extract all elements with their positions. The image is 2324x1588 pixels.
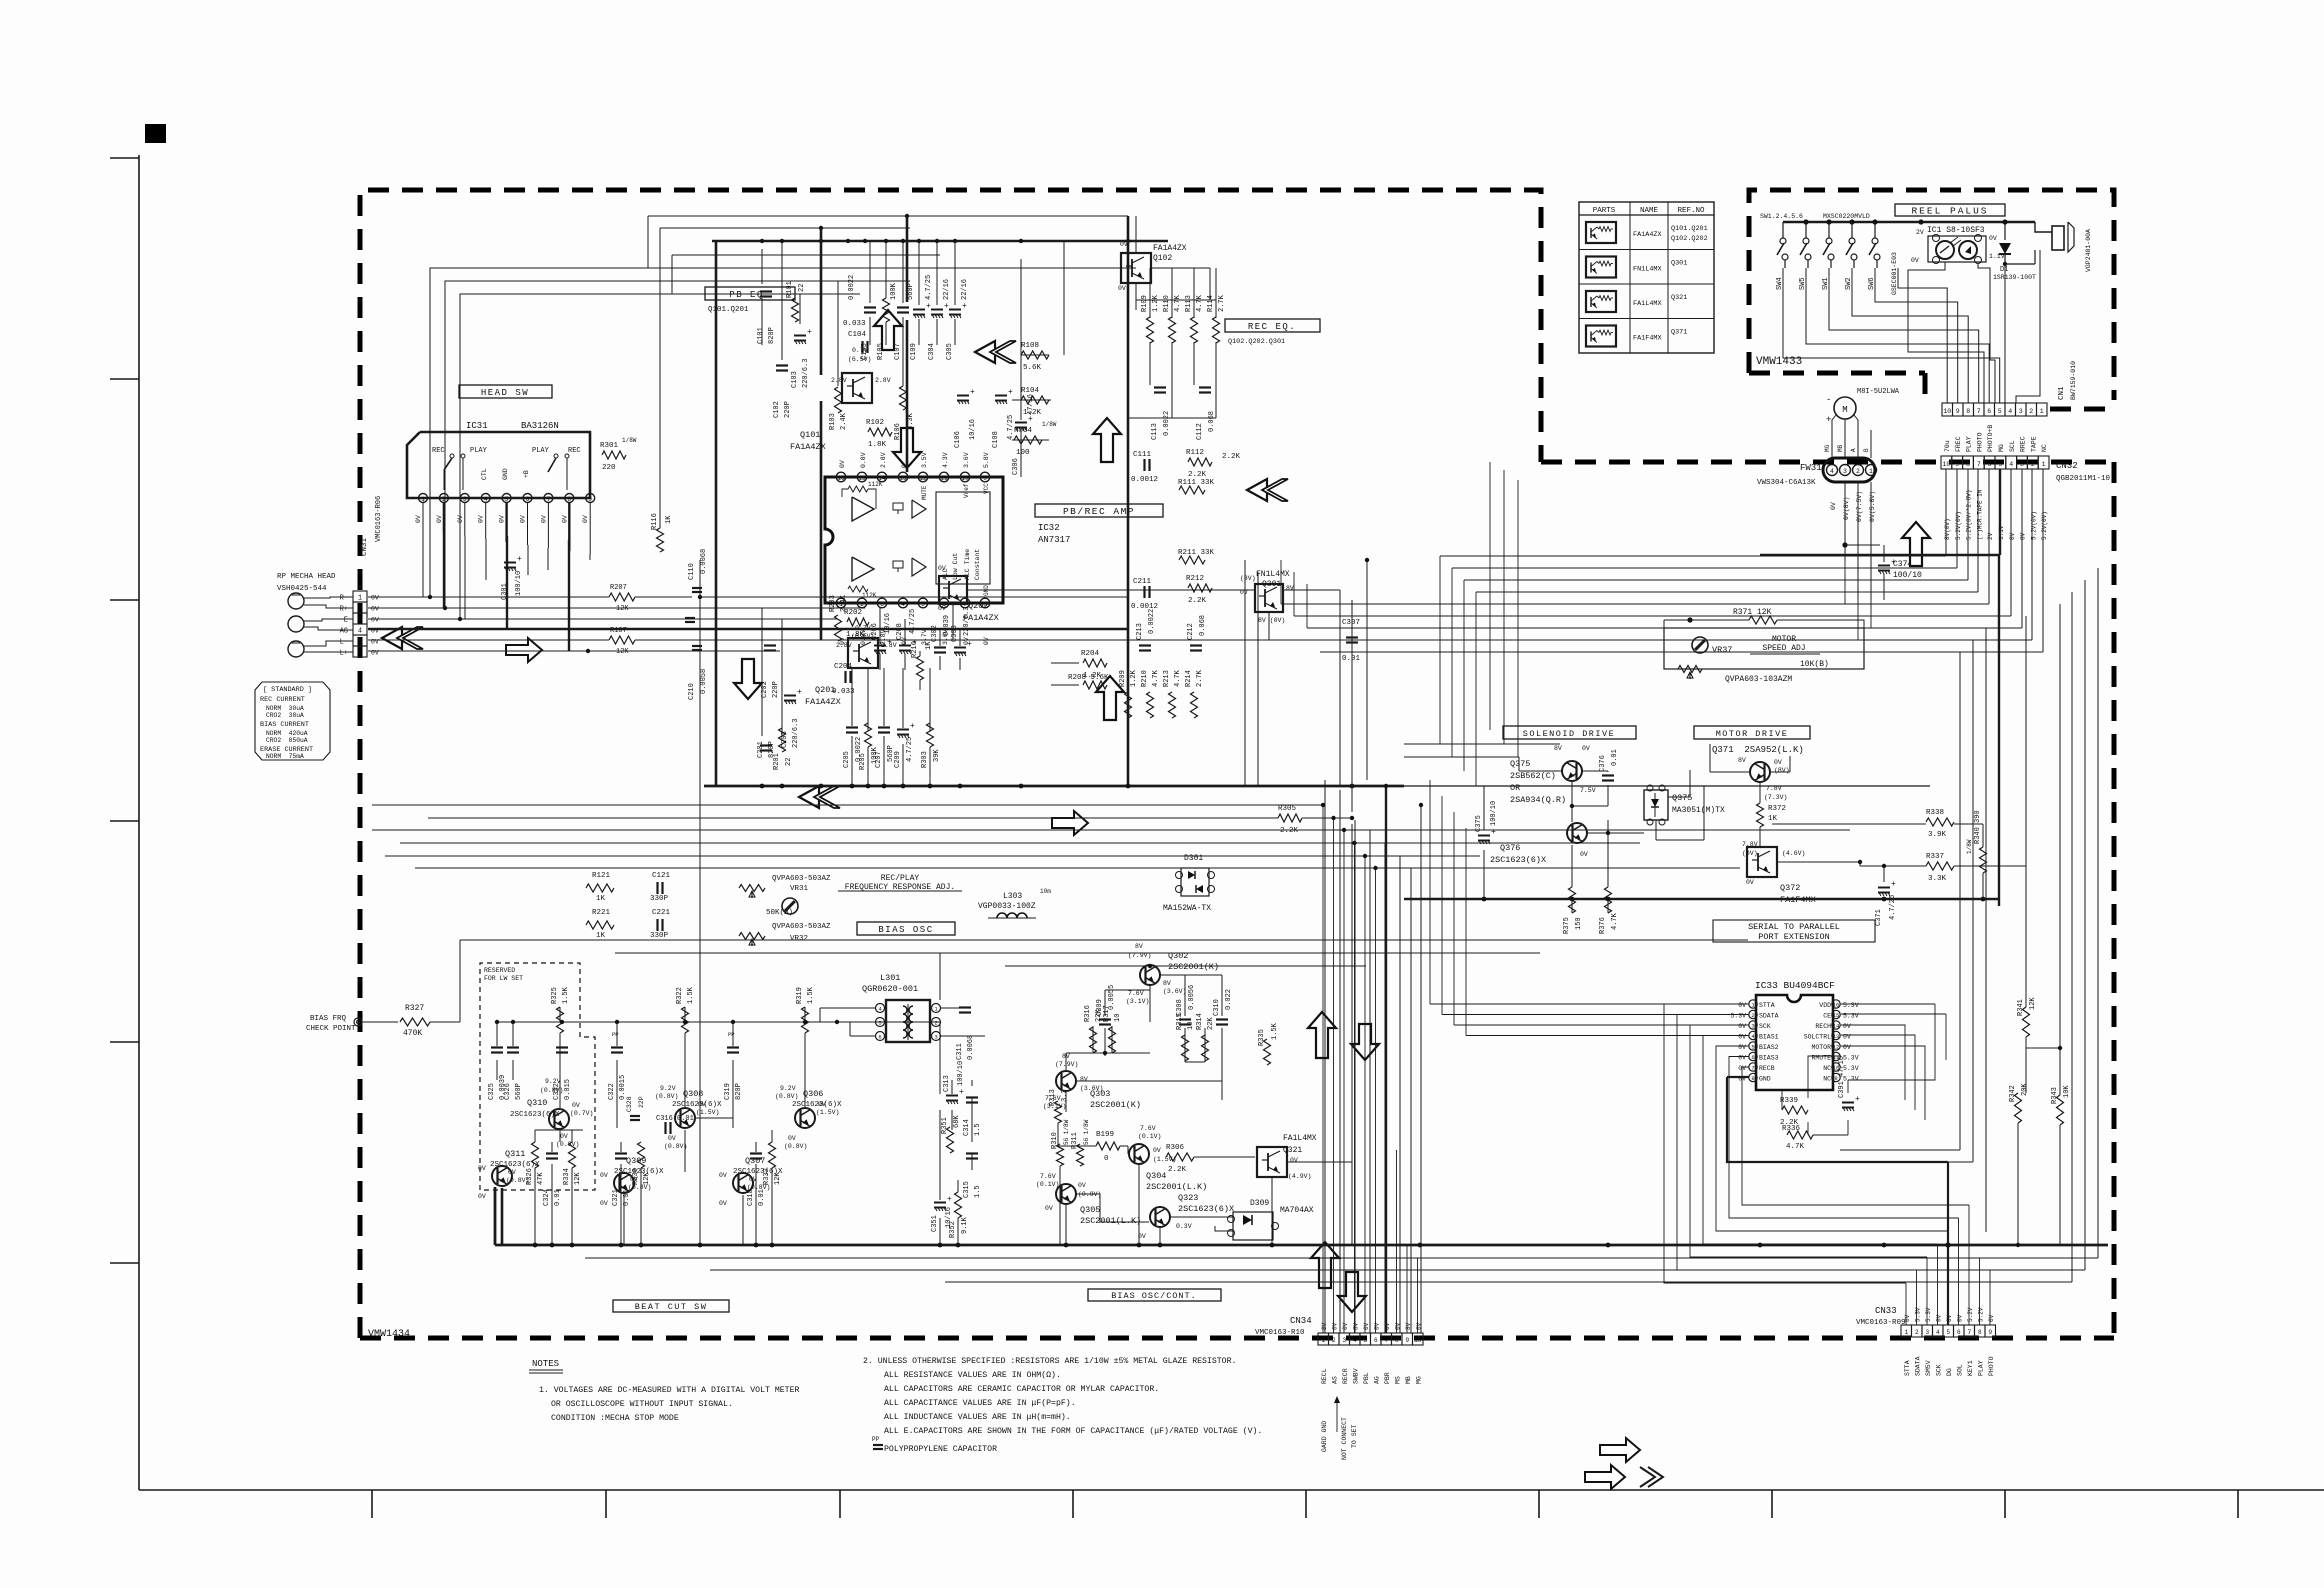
transistor Q371 2SA952(L.K) (1750, 762, 1770, 782)
transistor Q303 2SC2001(K) (1056, 1071, 1076, 1091)
svg-text:0V: 0V (1936, 1314, 1943, 1322)
svg-text:2: 2 (1332, 1337, 1336, 1344)
svg-text:R351: R351 (941, 1117, 949, 1134)
svg-text:0V: 0V (938, 605, 946, 612)
svg-text:A: A (1850, 448, 1857, 452)
svg-text:0V: 0V (839, 460, 846, 468)
svg-text:Q102.Q202: Q102.Q202 (1671, 235, 1708, 243)
svg-text:C324: C324 (543, 1189, 551, 1206)
capacitor C212 (1190, 644, 1202, 646)
svg-text:VR37: VR37 (1712, 645, 1732, 655)
svg-text:0V: 0V (1904, 1314, 1911, 1322)
svg-text:1: 1 (2040, 408, 2044, 415)
svg-text:6: 6 (1988, 461, 1992, 468)
svg-text:+: + (1855, 1095, 1860, 1104)
svg-text:R214: R214 (1185, 670, 1193, 687)
svg-text:BIAS FRQ: BIAS FRQ (310, 1015, 347, 1023)
resistor R301 (602, 451, 626, 459)
svg-text:RP MECHA HEAD: RP MECHA HEAD (277, 573, 336, 581)
resistor R205 (865, 723, 872, 747)
svg-text:R335: R335 (1258, 1029, 1266, 1046)
signal arrow down (ic32) (893, 428, 921, 468)
svg-text:Q305: Q305 (1080, 1205, 1100, 1215)
resistor R208 (1083, 681, 1107, 689)
svg-text:2SC2001(L.K): 2SC2001(L.K) (1146, 1182, 1207, 1192)
wire bus head lines (368, 596, 609, 598)
svg-text:5.3V: 5.3V (1915, 1307, 1922, 1322)
svg-text:0V: 0V (1843, 1023, 1851, 1030)
svg-text:3.5V: 3.5V (921, 452, 928, 468)
svg-text:AG: AG (340, 628, 348, 636)
resistor R216 (917, 656, 924, 680)
svg-text:VGP0033-100Z: VGP0033-100Z (978, 902, 1036, 911)
resistor R332 (769, 1142, 776, 1168)
head L (288, 641, 304, 657)
svg-text:BIAS2: BIAS2 (1759, 1044, 1779, 1051)
signal arrow double-left (rec eq) (975, 341, 995, 363)
svg-text:QGB2011M1-10: QGB2011M1-10 (2056, 475, 2111, 483)
svg-text:MA3051(M)TX: MA3051(M)TX (1672, 806, 1725, 815)
IC32 pin 14 (877, 472, 887, 482)
svg-text:5: 5 (1751, 1044, 1754, 1051)
svg-text:PORT EXTENSION: PORT EXTENSION (1758, 932, 1829, 942)
svg-text:6: 6 (878, 1034, 881, 1041)
svg-text:R334: R334 (563, 1168, 571, 1185)
IC33 pin 12 MOTOR (1832, 1042, 1840, 1050)
svg-text:R330: R330 (632, 1168, 640, 1185)
svg-text:R303: R303 (921, 751, 929, 768)
svg-text:(0.8V): (0.8V) (784, 1143, 807, 1150)
signal arrow up (bias1) (1308, 1012, 1336, 1058)
capacitor C208 (899, 645, 911, 647)
svg-text:Q301: Q301 (1671, 260, 1687, 268)
resistor R325 (557, 1007, 564, 1033)
svg-text:100K: 100K (890, 282, 898, 300)
svg-text:C102: C102 (773, 401, 781, 418)
resistor R107 (609, 636, 635, 644)
svg-text:R205: R205 (859, 753, 867, 770)
IC33 pin 10 NC (1832, 1063, 1840, 1071)
svg-text:0V: 0V (698, 1101, 706, 1108)
svg-text:C376: C376 (1599, 755, 1607, 772)
svg-text:VSH0425-544: VSH0425-544 (277, 585, 327, 593)
svg-text:C304: C304 (928, 343, 936, 360)
svg-text:220P: 220P (772, 681, 780, 698)
svg-text:7.8V: 7.8V (1742, 841, 1758, 848)
svg-text:(7.3V): (7.3V) (1764, 794, 1787, 801)
resistor R330 (638, 1142, 645, 1168)
connector CN1 BW7159-010 (1942, 403, 1953, 416)
svg-text:R343: R343 (2051, 1087, 2059, 1104)
svg-text:C212: C212 (1187, 623, 1195, 640)
svg-text:NORM 30uA: NORM 30uA (266, 705, 304, 712)
resistor R326 (532, 1142, 539, 1168)
svg-text:SW1.2.4.5.6: SW1.2.4.5.6 (1760, 213, 1803, 220)
bottom frame line (139, 1489, 2324, 1491)
svg-text:1: 1 (421, 496, 425, 503)
svg-text:3: 3 (1843, 468, 1847, 475)
svg-text:MUTE: MUTE (921, 485, 928, 500)
svg-text:0V(7.5V): 0V(7.5V) (1856, 491, 1863, 522)
transistor Q308 2SC1623(6)X (675, 1108, 695, 1128)
svg-text:0V: 0V (938, 565, 946, 572)
capacitor C316 (664, 1122, 666, 1134)
svg-text:100/10: 100/10 (1490, 801, 1498, 826)
svg-text:1.5K: 1.5K (687, 986, 695, 1004)
svg-text:NC: NC (2041, 444, 2048, 452)
svg-text:MS: MS (1395, 1376, 1402, 1384)
svg-text:22K: 22K (1095, 1009, 1103, 1022)
svg-text:R208 5.6K: R208 5.6K (1068, 674, 1109, 682)
svg-text:7.6V: 7.6V (1128, 990, 1144, 997)
svg-text:R106: R106 (894, 423, 902, 440)
svg-text:1.5K: 1.5K (807, 986, 815, 1004)
svg-text:GSEC001-E03: GSEC001-E03 (1891, 252, 1898, 295)
svg-text:0V: 0V (600, 1172, 608, 1179)
wire far right verticals (1959, 652, 1961, 1150)
svg-text:CE: CE (1823, 1013, 1831, 1020)
capacitor C204 (844, 671, 846, 683)
svg-text:8: 8 (1751, 1075, 1754, 1082)
IC32 pin 15 (857, 472, 867, 482)
resistor R214 (1191, 692, 1198, 718)
svg-text:56 1/8W: 56 1/8W (1063, 1119, 1070, 1145)
svg-text:NOT CONNECT: NOT CONNECT (1341, 1417, 1348, 1460)
svg-text:+: + (912, 638, 917, 647)
svg-text:M8I-5U2LWA: M8I-5U2LWA (1857, 388, 1900, 396)
capacitor C309 (1099, 1018, 1111, 1020)
svg-text:4.7K: 4.7K (1196, 294, 1204, 312)
svg-text:C101: C101 (757, 327, 765, 344)
wire drops to solenoid (1489, 462, 1491, 730)
svg-text:SWBV: SWBV (1353, 1368, 1360, 1384)
block label MOTOR DRIVE (1694, 726, 1810, 739)
transistor Q310 2SC1623(6)X (549, 1109, 569, 1129)
svg-text:22: 22 (798, 284, 806, 292)
transistor Q306 2SC1623(6)X (795, 1108, 815, 1128)
signal arrow left (head) (382, 627, 402, 649)
svg-text:PB/REC AMP: PB/REC AMP (1063, 506, 1135, 517)
capacitor C305 (949, 309, 961, 311)
IC33 pin 13 SOLCTRL (1832, 1031, 1840, 1039)
pot VR32 QVPA603-503AZ (739, 933, 765, 940)
svg-text:0V: 0V (478, 1165, 486, 1172)
svg-text:R-: R- (340, 595, 348, 603)
svg-text:0V: 0V (1957, 1314, 1964, 1322)
svg-text:2: 2 (1856, 468, 1860, 475)
svg-text:0V: 0V (1118, 285, 1126, 292)
svg-text:AN7317: AN7317 (1038, 535, 1070, 545)
svg-text:2SC2001(K): 2SC2001(K) (1090, 1100, 1141, 1110)
svg-text:5: 5 (1998, 408, 2002, 415)
resistor R105 (883, 298, 890, 322)
svg-text:10: 10 (1187, 1022, 1195, 1030)
svg-text:1.5: 1.5 (974, 1185, 982, 1198)
signal arrow down (q201) (734, 659, 762, 699)
svg-text:VMC0163-R06: VMC0163-R06 (375, 496, 383, 542)
svg-text:+: + (970, 388, 975, 397)
svg-text:C104: C104 (848, 331, 867, 339)
svg-text:10: 10 (1943, 408, 1951, 415)
wire long mid horizontals (372, 804, 1323, 806)
svg-text:0V: 0V (1988, 1314, 1995, 1322)
svg-text:4.7/25: 4.7/25 (925, 275, 933, 300)
svg-text:FA1A4ZX: FA1A4ZX (1153, 244, 1187, 253)
svg-text:+: + (947, 1195, 952, 1204)
svg-text:R102: R102 (866, 419, 884, 427)
svg-text:6: 6 (358, 650, 362, 658)
motor wires (1832, 415, 1836, 458)
svg-text:HEAD SW: HEAD SW (481, 388, 529, 398)
svg-text:R315: R315 (1176, 1013, 1184, 1030)
svg-text:R325: R325 (551, 987, 559, 1004)
signal arrow right (head) (506, 638, 542, 662)
svg-text:1/8W: 1/8W (1966, 839, 1973, 854)
svg-text:+: + (517, 555, 522, 564)
svg-text:2. UNLESS OTHERWISE SPECIFIED: 2. UNLESS OTHERWISE SPECIFIED :RESISTORS… (863, 1356, 1236, 1366)
svg-text:C112: C112 (1196, 423, 1204, 440)
signal arrow left (mid) (799, 786, 819, 808)
svg-text:0V: 0V (1363, 1322, 1370, 1330)
svg-text:2SC2001(L.K): 2SC2001(L.K) (1080, 1216, 1141, 1226)
svg-text:REC EQ.: REC EQ. (1248, 322, 1296, 332)
svg-text:PLAY: PLAY (470, 447, 488, 455)
svg-text:(4.6V): (4.6V) (1782, 850, 1805, 857)
resistor R213 (1169, 692, 1176, 718)
IC32 pin 5 (918, 598, 928, 608)
IC33 pin 1 STTA (1749, 1000, 1757, 1008)
resistor R209 (1125, 692, 1132, 718)
svg-text:3: 3 (1925, 1329, 1929, 1336)
svg-text:(3.1V): (3.1V) (1126, 998, 1149, 1005)
resistor R108 (1021, 351, 1049, 359)
parts table row FA1A4ZX (1586, 222, 1616, 243)
svg-text:20K: 20K (2021, 1083, 2029, 1096)
resistor R372 (1757, 803, 1764, 827)
svg-text:MA704AX: MA704AX (1280, 1206, 1314, 1215)
svg-text:22/16: 22/16 (943, 279, 951, 300)
capacitor C391 (1842, 1102, 1854, 1104)
svg-text:R339: R339 (1780, 1097, 1798, 1105)
svg-text:0V: 0V (1342, 1322, 1349, 1330)
resistor R351 (947, 1127, 954, 1153)
svg-text:0V: 0V (478, 1193, 486, 1200)
resistor R336 (1787, 1131, 1813, 1139)
svg-text:0V: 0V (1290, 1157, 1298, 1164)
svg-text:9: 9 (1955, 461, 1959, 468)
transistor Q372 FA1F4MX (1747, 847, 1777, 877)
svg-text:Q306: Q306 (803, 1089, 823, 1099)
block label BIAS OSC/CONT (1088, 1289, 1221, 1301)
resistor R376 (1605, 887, 1612, 913)
svg-text:2.8V: 2.8V (875, 377, 891, 384)
svg-text:0V: 0V (788, 1135, 796, 1142)
svg-text:REC: REC (568, 447, 581, 455)
svg-text:3: 3 (2020, 461, 2024, 468)
capacitor C351 (934, 1202, 946, 1204)
svg-text:R110: R110 (1163, 295, 1171, 312)
svg-text:R336: R336 (1782, 1125, 1801, 1133)
svg-text:(8V): (8V) (1240, 575, 1256, 582)
svg-text:BA3126N: BA3126N (521, 421, 559, 431)
svg-text:PP: PP (612, 1031, 619, 1038)
svg-text:PLAY: PLAY (532, 447, 550, 455)
svg-text:3.9K: 3.9K (1928, 831, 1947, 839)
svg-text:VGP2401-00A: VGP2401-00A (2085, 229, 2092, 272)
svg-text:8V: 8V (1135, 943, 1143, 950)
svg-text:5.2V: 5.2V (1978, 1307, 1985, 1322)
svg-text:8V: 8V (1554, 745, 1562, 752)
transistor Q202 FA1A4ZX (939, 576, 967, 604)
resistor R340 (1980, 847, 1987, 873)
svg-text:0V: 0V (1738, 1023, 1746, 1030)
svg-text:0V: 0V (983, 637, 990, 645)
svg-text:7.6V: 7.6V (1140, 1125, 1156, 1132)
svg-text:GND: GND (502, 468, 509, 480)
svg-text:6: 6 (526, 496, 530, 503)
head E (288, 616, 304, 632)
svg-text:D301: D301 (1184, 854, 1203, 863)
resistor R311 (1077, 1144, 1084, 1166)
capacitor C301 (504, 562, 516, 564)
svg-text:(0.8V): (0.8V) (655, 1093, 678, 1100)
svg-text:100/10: 100/10 (1893, 571, 1922, 580)
svg-text:R322: R322 (676, 987, 684, 1004)
capacitor C105 (864, 306, 876, 308)
svg-text:2.2K: 2.2K (1168, 1166, 1187, 1174)
svg-text:FREC: FREC (1955, 436, 1962, 452)
resistor R210 (1147, 692, 1154, 718)
svg-text:0V: 0V (561, 515, 568, 523)
svg-text:PP: PP (728, 1031, 735, 1038)
switch SW4 (1782, 222, 1784, 238)
svg-text:Q102: Q102 (1153, 254, 1172, 263)
svg-text:CN1: CN1 (2058, 386, 2066, 400)
svg-text:STTA: STTA (1759, 1002, 1775, 1009)
svg-text:BIAS3: BIAS3 (1759, 1055, 1779, 1062)
resistor R111 (1179, 486, 1205, 494)
svg-text:2: 2 (934, 1020, 937, 1027)
svg-text:5.2V(0V): 5.2V(0V) (2041, 511, 2048, 540)
svg-text:Q375: Q375 (1510, 759, 1530, 769)
resistor R375 (1569, 887, 1576, 913)
svg-text:+: + (962, 302, 967, 311)
svg-text:VR32: VR32 (790, 935, 808, 943)
svg-text:C315: C315 (963, 1181, 971, 1198)
resistor R342 (2015, 1093, 2022, 1123)
svg-text:1.5: 1.5 (974, 1123, 982, 1136)
IC33 pin 11 RMUTE (1832, 1052, 1840, 1060)
svg-text:QVPA603-503AZ: QVPA603-503AZ (772, 875, 831, 883)
svg-text:0V: 0V (719, 1200, 727, 1207)
capacitor C113 (1154, 386, 1166, 388)
svg-text:R209: R209 (1119, 670, 1127, 687)
svg-text:10K: 10K (2063, 1085, 2071, 1098)
capacitor C109 (913, 309, 925, 311)
svg-text:10K(B): 10K(B) (1800, 660, 1829, 669)
signal arrow up (q371) (1902, 522, 1930, 566)
svg-text:MXSC0220MVLD: MXSC0220MVLD (1823, 213, 1870, 220)
svg-text:8V: 8V (1163, 980, 1171, 987)
resistor R104 (1021, 396, 1049, 404)
svg-text:BEAT CUT SW: BEAT CUT SW (635, 1302, 708, 1312)
svg-text:C113: C113 (1151, 423, 1159, 440)
IC32 pin 16 (836, 472, 846, 482)
svg-text:CRO2 850uA: CRO2 850uA (266, 737, 308, 744)
svg-text:ALL CAPACITANCE VALUES ARE IN: ALL CAPACITANCE VALUES ARE IN μF(P=pF). (884, 1398, 1076, 1408)
resistor R103 (835, 387, 842, 413)
svg-text:2SB562(C): 2SB562(C) (1510, 771, 1556, 781)
switch SW6 (1874, 222, 1876, 238)
svg-text:R304: R304 (1014, 427, 1033, 435)
IC32 pin 3 (877, 598, 887, 608)
svg-text:10/16: 10/16 (969, 419, 977, 440)
svg-text:SOLENOID DRIVE: SOLENOID DRIVE (1523, 729, 1615, 739)
resistor R204 (1083, 659, 1107, 667)
svg-text:PBR: PBR (1384, 1372, 1391, 1384)
svg-text:PHOTO+B: PHOTO+B (1987, 425, 1994, 452)
capacitor C306 (1015, 422, 1027, 424)
svg-text:0V: 0V (436, 515, 443, 523)
IC32 pin 8 (980, 598, 990, 608)
svg-text:3: 3 (2019, 408, 2023, 415)
svg-text:9.2V: 9.2V (780, 1085, 796, 1092)
svg-text:0V: 0V (520, 515, 527, 523)
IC33 pin 2 SDATA (1749, 1010, 1757, 1018)
legend arrow 2 (1585, 1465, 1625, 1489)
svg-text:9.2V: 9.2V (660, 1085, 676, 1092)
capacitor C376 (1602, 774, 1614, 776)
svg-text:0.0022: 0.0022 (1163, 411, 1171, 436)
svg-text:(4.9V): (4.9V) (1288, 1173, 1311, 1180)
parts table row FA1L4MX (1586, 291, 1616, 312)
svg-text:C311: C311 (956, 1043, 964, 1060)
transistor Q101 FA1A4ZX (842, 373, 872, 403)
svg-text:3.3: 3.3 (1061, 1089, 1069, 1102)
svg-text:OR OSCILLOSCOPE WITHOUT INPUT: OR OSCILLOSCOPE WITHOUT INPUT SIGNAL. (551, 1400, 733, 1409)
svg-text:4.7K: 4.7K (1786, 1143, 1805, 1151)
capacitor C374 (1844, 482, 1846, 560)
svg-text:BW7159-010: BW7159-010 (2070, 361, 2077, 400)
capacitor C104 (861, 341, 863, 353)
svg-text:0V: 0V (371, 595, 379, 602)
svg-text:VDD: VDD (1819, 1002, 1831, 1009)
standard current table (255, 682, 330, 760)
svg-text:SCL: SCL (2009, 440, 2016, 452)
svg-text:0.01: 0.01 (1342, 655, 1361, 663)
resistor R201 (779, 728, 786, 752)
transistor Q102 FA1A4ZX (1121, 253, 1151, 283)
capacitor C210 (692, 645, 702, 647)
svg-text:STTA: STTA (1904, 1360, 1911, 1376)
svg-text:9: 9 (1405, 1337, 1409, 1344)
op-amp IC32 AN7317 outline (825, 477, 1003, 603)
svg-text:22K: 22K (1207, 1017, 1215, 1030)
svg-text:IC32: IC32 (1038, 523, 1060, 533)
svg-text:C103: C103 (791, 371, 799, 388)
svg-text:560P: 560P (515, 1083, 523, 1100)
wire ic33 left routes (1664, 1004, 1906, 1283)
svg-text:R201: R201 (773, 753, 781, 770)
wire pbeq verticals (647, 216, 649, 268)
svg-text:0V: 0V (1746, 879, 1754, 886)
svg-text:5.3V: 5.3V (1730, 1013, 1746, 1020)
svg-text:R314: R314 (1196, 1013, 1204, 1030)
svg-text:5: 5 (1363, 1337, 1367, 1344)
svg-text:C328: C328 (626, 1096, 633, 1112)
svg-text:Q101.Q201: Q101.Q201 (1671, 225, 1708, 233)
svg-text:5: 5 (505, 496, 509, 503)
